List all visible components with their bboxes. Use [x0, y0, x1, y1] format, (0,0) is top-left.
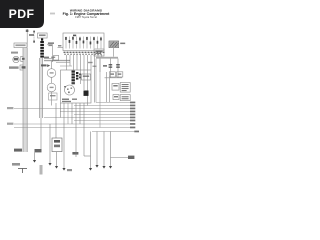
svg-text:1987 Toyota Tercel: 1987 Toyota Tercel [75, 15, 97, 19]
svg-text:PDF: PDF [9, 7, 35, 21]
